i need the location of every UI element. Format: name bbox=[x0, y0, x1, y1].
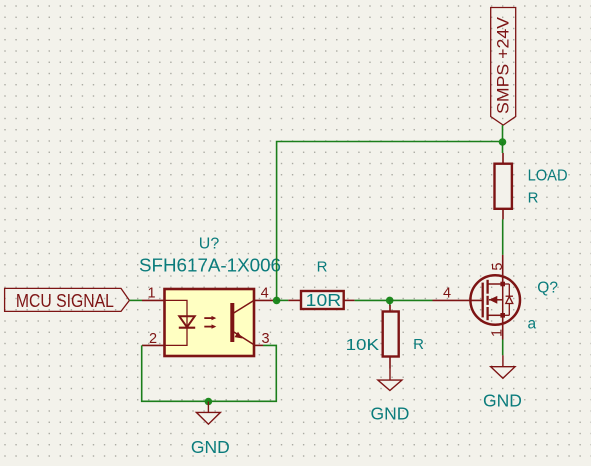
light emission arrows bbox=[204, 316, 216, 329]
Q? drain pin 5 bbox=[490, 255, 506, 284]
svg-text:GND: GND bbox=[483, 390, 522, 410]
svg-text:1: 1 bbox=[490, 329, 506, 337]
Q? gate bar bbox=[482, 283, 484, 318]
svg-text:4: 4 bbox=[261, 286, 269, 302]
U1 pin 3 bbox=[254, 331, 270, 347]
Q? gate pin 4 bbox=[433, 286, 483, 302]
Q? body circle bbox=[470, 275, 520, 325]
U1 internal LED branch bbox=[165, 300, 196, 345]
U1 pin 2 bbox=[142, 331, 165, 347]
10K body bbox=[383, 312, 399, 357]
U1 pin 1 bbox=[142, 286, 165, 302]
wire: Q? source to GND bbox=[502, 340, 504, 356]
svg-text:a: a bbox=[528, 316, 537, 333]
opto-coupler U1 SFH617A-1X006 bbox=[139, 235, 281, 356]
svg-text:GND: GND bbox=[371, 404, 410, 424]
10R body bbox=[301, 291, 344, 309]
resistor R 10K bbox=[346, 305, 425, 369]
resistor R LOAD bbox=[495, 153, 568, 219]
phototransistor bbox=[232, 300, 254, 344]
LED triangle bbox=[179, 316, 194, 327]
wire: MCU SIGNAL to U? pin 1 bbox=[129, 299, 142, 301]
wire: pin4 node up to +24V rail bbox=[277, 142, 503, 301]
wire: node to 10R bbox=[277, 299, 289, 301]
U1 body bbox=[165, 289, 255, 356]
U1 pin 4 bbox=[254, 286, 274, 302]
svg-text:SMPS +24V: SMPS +24V bbox=[494, 16, 513, 114]
ground symbol GND (Q?) bbox=[483, 355, 522, 410]
wire: pin3 down bbox=[208, 345, 276, 401]
svg-text:SFH617A-1X006: SFH617A-1X006 bbox=[139, 256, 281, 276]
svg-text:10R: 10R bbox=[306, 290, 342, 310]
LED cathode bar bbox=[179, 327, 195, 329]
wire: gate node to Q? gate bbox=[390, 299, 433, 301]
svg-text:R: R bbox=[317, 258, 328, 275]
10R left pin bbox=[288, 299, 301, 301]
MOSFET Q? bbox=[433, 255, 559, 340]
Q? drain link bbox=[488, 283, 503, 285]
junction: gate node bbox=[386, 297, 394, 305]
power label SMPS +24V bbox=[491, 8, 516, 126]
wire: LOAD to Q? drain bbox=[502, 219, 504, 255]
svg-text:4: 4 bbox=[443, 286, 451, 302]
resistor R 10R bbox=[288, 258, 354, 310]
global label MCU SIGNAL bbox=[5, 288, 130, 311]
Q? connection squares bbox=[500, 282, 505, 318]
wire: pin2 down bbox=[142, 345, 209, 401]
junction: +24V rail node bbox=[499, 138, 507, 146]
Q? channel dashes bbox=[486, 280, 488, 320]
svg-text:1: 1 bbox=[147, 286, 155, 302]
10R right pin bbox=[344, 299, 355, 301]
Q? substrate arrow bbox=[489, 296, 503, 304]
Q? internal vertical bbox=[502, 284, 504, 315]
Q? source pin 1 bbox=[490, 315, 506, 339]
LOAD top pin bbox=[502, 153, 504, 164]
Q? source link bbox=[488, 314, 503, 316]
LOAD bottom pin bbox=[502, 209, 504, 220]
wire: gate node down bbox=[389, 300, 391, 305]
svg-text:10K: 10K bbox=[346, 337, 380, 354]
svg-text:R: R bbox=[528, 190, 539, 207]
svg-text:Q?: Q? bbox=[537, 280, 558, 297]
svg-text:R: R bbox=[413, 336, 424, 353]
svg-text:5: 5 bbox=[490, 263, 506, 271]
10K top pin bbox=[389, 305, 391, 312]
ground symbol GND (10K) bbox=[371, 369, 410, 424]
wire: 10R to gate node bbox=[355, 299, 390, 301]
svg-text:GND: GND bbox=[191, 437, 230, 457]
svg-text:MCU SIGNAL: MCU SIGNAL bbox=[16, 291, 114, 311]
svg-text:U?: U? bbox=[199, 235, 220, 252]
Q? body diode bbox=[503, 284, 513, 315]
wire: rail to LOAD resistor bbox=[502, 142, 504, 153]
junction: node at U1 pin 4 bbox=[273, 297, 281, 305]
svg-text:LOAD: LOAD bbox=[528, 168, 568, 185]
LOAD body bbox=[495, 164, 512, 209]
10K bottom pin bbox=[389, 357, 391, 369]
ground symbol GND (opto) bbox=[191, 402, 230, 458]
wire: SMPS tag to rail junction bbox=[502, 125, 504, 142]
junction: opto ground node bbox=[205, 398, 213, 406]
svg-text:2: 2 bbox=[149, 331, 157, 347]
